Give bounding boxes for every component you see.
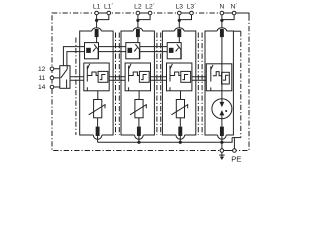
- svg-text:L2: L2: [134, 3, 142, 10]
- svg-text:L1´: L1´: [104, 3, 114, 10]
- svg-text:12: 12: [38, 66, 46, 73]
- svg-text:L1: L1: [93, 3, 101, 10]
- svg-text:11: 11: [38, 75, 45, 82]
- svg-text:L3´: L3´: [187, 3, 197, 10]
- svg-text:14: 14: [38, 84, 46, 91]
- svg-text:L2´: L2´: [145, 3, 155, 10]
- svg-text:L3: L3: [176, 3, 184, 10]
- svg-text:N´: N´: [231, 3, 238, 10]
- svg-text:N: N: [219, 3, 224, 10]
- svg-text:PE: PE: [231, 154, 241, 163]
